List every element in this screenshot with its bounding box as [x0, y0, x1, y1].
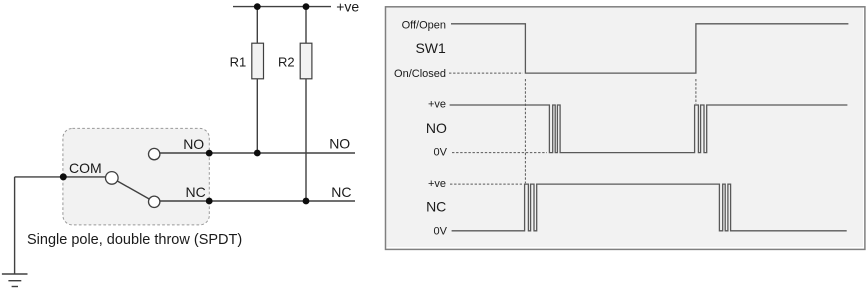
- svg-text:+ve: +ve: [428, 99, 446, 111]
- svg-text:NC: NC: [426, 198, 446, 214]
- svg-text:NO: NO: [183, 136, 204, 152]
- svg-text:NC: NC: [331, 184, 351, 200]
- svg-text:+ve: +ve: [336, 0, 359, 15]
- svg-text:R2: R2: [278, 55, 295, 70]
- svg-text:NO: NO: [426, 120, 447, 136]
- svg-text:R1: R1: [230, 55, 247, 70]
- svg-text:NO: NO: [329, 136, 350, 152]
- svg-text:Single pole, double throw (SPD: Single pole, double throw (SPDT): [27, 232, 242, 248]
- svg-text:0V: 0V: [434, 226, 448, 238]
- svg-text:+ve: +ve: [428, 178, 446, 190]
- svg-text:COM: COM: [69, 160, 102, 176]
- svg-text:Off/Open: Off/Open: [402, 20, 446, 32]
- svg-text:NC: NC: [186, 184, 206, 200]
- svg-text:0V: 0V: [434, 147, 448, 159]
- svg-text:On/Closed: On/Closed: [394, 68, 446, 80]
- svg-text:SW1: SW1: [415, 40, 446, 56]
